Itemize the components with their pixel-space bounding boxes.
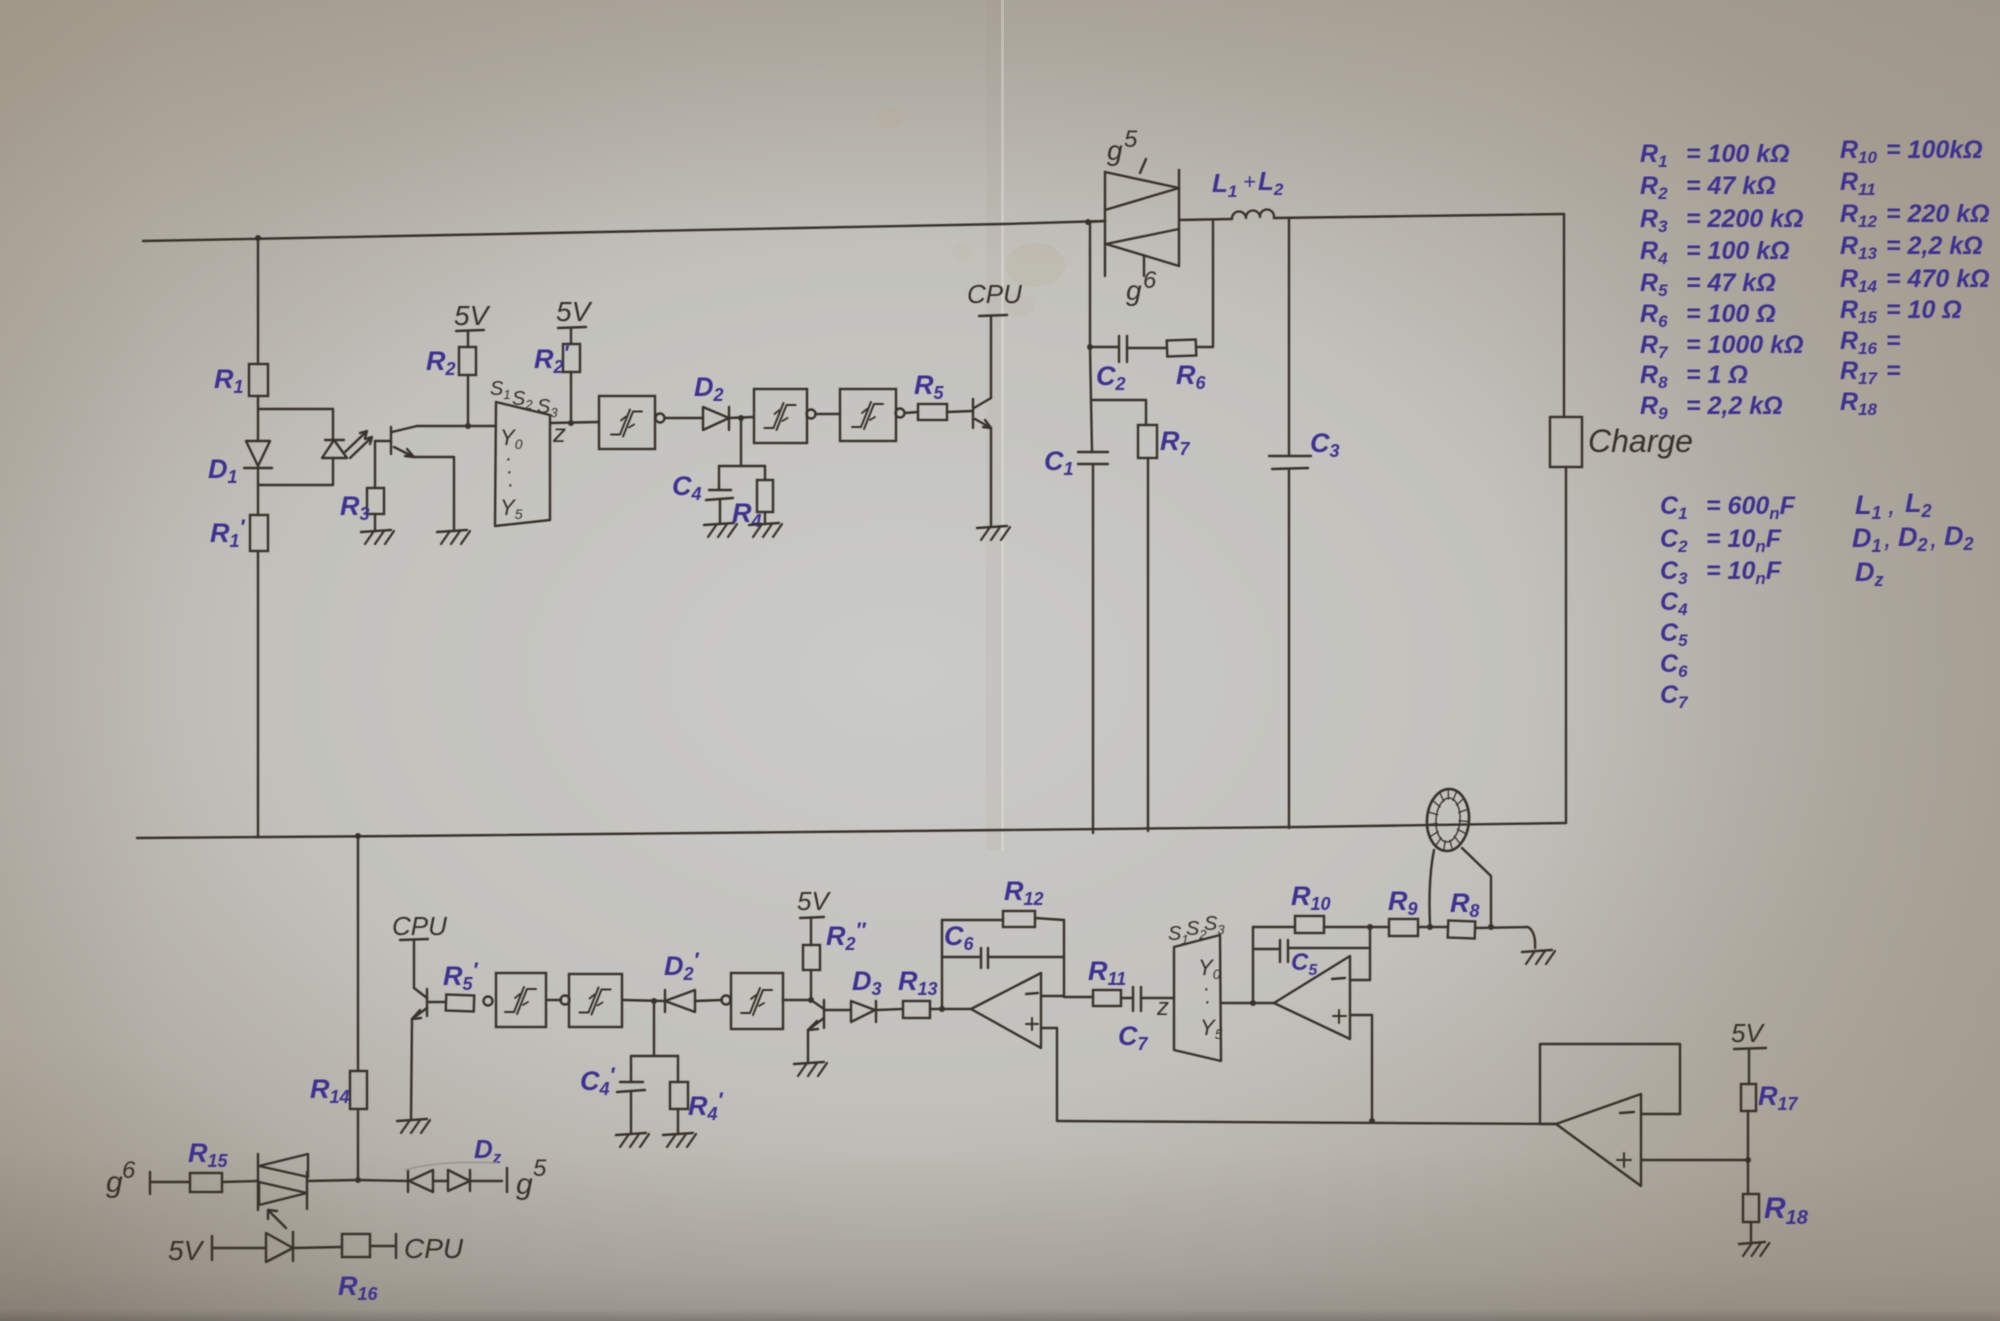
wire A2 plus drop [1371, 1015, 1373, 1121]
triac g5 [1105, 159, 1179, 276]
schmitt U6 [496, 973, 546, 1027]
schmitt U4 [754, 389, 807, 443]
power 5V (R2') [556, 296, 593, 344]
op-amp A2 [1274, 956, 1350, 1039]
svg-text:= 100 Ω: = 100 Ω [1686, 300, 1776, 328]
wire R16 to CPU tick [370, 1245, 396, 1247]
transistor Q2 [973, 398, 991, 428]
resistor R2 [459, 347, 476, 375]
power 5V (R2) [454, 300, 491, 347]
terminal tick g6 [149, 1172, 151, 1194]
node opto lower link [258, 484, 333, 486]
schmitt U5 [840, 389, 896, 441]
bubble U7 in [561, 996, 570, 1005]
svg-text:5V: 5V [797, 886, 831, 916]
svg-text:= 220 kΩ: = 220 kΩ [1886, 200, 1990, 228]
svg-text:6: 6 [122, 1157, 136, 1184]
resistor R4' [670, 1082, 688, 1109]
ground Q2 [977, 526, 1010, 540]
resistor R6 [1167, 339, 1197, 356]
opto light arrows [345, 431, 372, 458]
resistor R18 [1743, 1194, 1759, 1222]
ground C4' [616, 1133, 649, 1147]
wire Q4 emitter [807, 1030, 809, 1063]
svg-text:CPU: CPU [404, 1233, 464, 1264]
power 5V (R2'') [797, 886, 831, 945]
wire long feedback [1057, 1121, 1556, 1124]
svg-text:= 2200 kΩ: = 2200 kΩ [1686, 205, 1804, 233]
capacitor C2 [1119, 336, 1127, 362]
wire Q2 emitter [990, 428, 992, 526]
wire R3 to ground [374, 514, 376, 531]
resistor R13 [903, 1001, 930, 1018]
wire U8 to Q4 [783, 999, 811, 1001]
schmitt U7 [569, 974, 622, 1027]
svg-text:= 100kΩ: = 100kΩ [1886, 136, 1983, 164]
resistor R17 [1741, 1084, 1756, 1111]
resistor R4' wire [677, 1056, 679, 1082]
svg-text:= 10 Ω: = 10 Ω [1886, 296, 1962, 324]
wire R8 to ground hook [1475, 927, 1535, 948]
wire 5V to D4 [212, 1247, 266, 1249]
wire A1 fb up [1063, 920, 1065, 996]
ground R18 [1739, 1242, 1769, 1256]
inductor L1+L2 [1232, 209, 1274, 219]
wire R4 to ground [764, 512, 766, 524]
wire R1 to D1 node [257, 396, 259, 440]
svg-text:= 2,2 kΩ: = 2,2 kΩ [1886, 232, 1983, 260]
node A2 input [1250, 1000, 1256, 1006]
triac g6 [1106, 229, 1179, 276]
svg-text:g: g [516, 1168, 533, 1201]
diode D3 [851, 1001, 876, 1022]
ground Q4 [794, 1062, 827, 1076]
resistor R7 [1138, 425, 1157, 458]
port CPU2 [392, 911, 447, 941]
pencil bracket Dz [405, 1162, 497, 1170]
terminal tick g5 [506, 1168, 508, 1192]
wire right drop to Charge [1563, 214, 1565, 417]
svg-text:= 470 kΩ: = 470 kΩ [1886, 265, 1990, 293]
wire D1 to lower node [257, 468, 259, 515]
svg-text:= 47 kΩ: = 47 kΩ [1686, 172, 1776, 200]
resistor R3 [367, 488, 384, 514]
svg-text:g: g [1107, 135, 1123, 166]
resistor R10 [1295, 916, 1324, 933]
wire R5 to Q2 [947, 411, 973, 412]
resistor R15 [190, 1173, 222, 1192]
wire R17 to node [1747, 1111, 1749, 1160]
wire bottom bus [137, 823, 1566, 838]
svg-text:5V: 5V [454, 300, 491, 331]
svg-text:CPU: CPU [967, 279, 1022, 309]
wire C3 drop [1288, 218, 1290, 456]
svg-text:,: , [1888, 489, 1896, 520]
wire D2 to box2 [729, 417, 754, 418]
wire D2' to U8 [695, 1000, 722, 1001]
resistor R4 wire [764, 466, 766, 480]
svg-text:5: 5 [533, 1155, 547, 1182]
wire U6 to U7 [546, 999, 561, 1001]
load Charge box [1550, 417, 1582, 467]
transistor Q4 [808, 1000, 824, 1030]
svg-text:6: 6 [1143, 267, 1157, 294]
diode Dz b [448, 1170, 470, 1191]
svg-text:= 2,2 kΩ: = 2,2 kΩ [1686, 392, 1783, 420]
resistor R2' [563, 344, 580, 372]
wire A1 plus drop [1056, 1028, 1058, 1121]
wire R18 to ground [1750, 1222, 1752, 1242]
resistor R14 [350, 1071, 367, 1109]
wire Dz to g5 [470, 1180, 502, 1182]
wire C4'/R4' tee [631, 1055, 678, 1057]
wire R7 tap [1092, 400, 1146, 425]
wire C4'/R4' drop [653, 1001, 655, 1056]
svg-text:5V: 5V [1731, 1018, 1765, 1048]
opto U10 light arrow [268, 1210, 286, 1228]
svg-text:,: , [1930, 522, 1938, 553]
node Z/R2' [568, 420, 574, 426]
resistor R9 [1389, 919, 1418, 936]
wire U5 to R5 [905, 412, 918, 413]
wire R9 link [1370, 926, 1389, 928]
ground R8 [1522, 950, 1555, 964]
svg-text:,: , [1884, 522, 1892, 553]
wire C2 to R6 [1127, 347, 1167, 349]
resistor R1 [249, 364, 268, 396]
wire R14 to node [357, 1109, 359, 1180]
capacitor C3 [1269, 456, 1311, 469]
node bus/R14 [355, 833, 361, 839]
svg-text:5: 5 [1124, 126, 1138, 153]
mux U2 [495, 402, 550, 526]
diode D1 [244, 441, 272, 468]
svg-text:=: = [1886, 327, 1901, 355]
node A1 input [939, 1006, 945, 1012]
terminal tick 5V [211, 1236, 213, 1260]
wire A3 minus stub [1641, 1113, 1680, 1115]
resistor R8 [1448, 921, 1476, 939]
capacitor C1 [1078, 452, 1108, 464]
wire U9 to A2 [1221, 1002, 1274, 1004]
toroid T1 [1425, 788, 1471, 853]
op-amp A1 [971, 973, 1041, 1048]
wire R1' to bottom bus [257, 551, 259, 837]
node C4' tap [651, 998, 657, 1004]
wire toroid lead left [1430, 850, 1435, 925]
resistor R2'' [803, 945, 820, 970]
terminal tick CPU [395, 1234, 397, 1258]
node feedback join [1369, 1118, 1375, 1124]
op-amp A3 [1556, 1094, 1641, 1186]
bubble U6 in [484, 997, 493, 1006]
node R2''/Q4 [808, 997, 814, 1003]
svg-text:g: g [106, 1166, 123, 1199]
svg-text:·: · [507, 474, 514, 496]
wire U7 to D2' [622, 1000, 665, 1001]
wire C2 stub [1090, 346, 1118, 348]
wire g6 to R15 [150, 1181, 190, 1183]
diode Dz a [408, 1170, 433, 1192]
wire R2 to node [467, 375, 469, 426]
wire Q2 collector to CPU [990, 316, 992, 398]
wire Dz link [433, 1180, 448, 1182]
wire triac to coil [1179, 219, 1232, 220]
node toroid left lead [1427, 924, 1433, 930]
wire toroid lead right [1462, 848, 1491, 926]
wire opto to node [307, 1180, 358, 1181]
svg-text:CPU: CPU [392, 911, 447, 941]
transistor Q1 (opto) [375, 426, 417, 457]
ground Q3 [397, 1119, 430, 1133]
wire Charge to bottom bus [1565, 467, 1567, 823]
wire A2 minus stub [1350, 979, 1370, 981]
wire R4' to ground [677, 1109, 679, 1134]
node opto upper link [258, 408, 333, 410]
wire C1 to bottom bus [1092, 464, 1094, 833]
opto triac U10 [258, 1154, 308, 1210]
wire CPU2 stem [413, 940, 415, 988]
svg-text:= 100 kΩ: = 100 kΩ [1686, 140, 1790, 168]
wire R13 to A1 [930, 1008, 971, 1010]
wire node to Dz [358, 1180, 408, 1181]
wire U3 to D2 [665, 417, 703, 419]
capacitor C4 [706, 466, 733, 524]
power 5V (R17) [1731, 1018, 1766, 1084]
node toroid right lead [1488, 924, 1494, 930]
wire R2'' to node [810, 970, 812, 1000]
svg-text:z: z [1156, 994, 1169, 1021]
resistor R3 wire [374, 441, 376, 488]
wire C4-R4 drop [740, 418, 742, 466]
wire R15 to opto [222, 1181, 258, 1182]
wire R1 drop [257, 238, 259, 364]
resistor R16 [342, 1234, 370, 1257]
wire A3 fb box [1540, 1044, 1680, 1124]
svg-text:5V: 5V [556, 296, 593, 327]
wire A2 plus stub [1350, 1014, 1372, 1016]
schmitt U3 [599, 396, 655, 449]
diode D2' [665, 990, 695, 1012]
wire C2 branch drop [1089, 222, 1091, 347]
wire C2 node to C1 [1090, 347, 1092, 452]
node R14/Dz [355, 1177, 361, 1183]
svg-text:·: · [1204, 991, 1211, 1013]
wire D4 to R16 [293, 1247, 342, 1248]
wire R7 to bottom bus [1147, 458, 1149, 831]
wire Q3 base stub [427, 1001, 446, 1003]
ground Q1 emitter [437, 530, 470, 544]
resistor R5' [446, 995, 475, 1012]
wire Q3 emitter [411, 1019, 412, 1120]
wire C7 to mux2 [1141, 997, 1174, 999]
wire bus to triac [1088, 221, 1105, 222]
wire R14 drop [357, 836, 359, 1071]
wire node to R18 [1747, 1160, 1749, 1194]
svg-text:= 10nF: = 10nF [1706, 525, 1782, 556]
wire C4-R4 tee [719, 465, 765, 467]
svg-text:= 1 Ω: = 1 Ω [1686, 361, 1748, 389]
svg-text:+: + [1243, 169, 1256, 194]
wire A2 fb right [1369, 927, 1371, 980]
svg-text:= 10nF: = 10nF [1706, 557, 1782, 588]
bubble U5 out [896, 409, 905, 418]
svg-text:= 47 kΩ: = 47 kΩ [1686, 269, 1776, 297]
diode D2 [703, 407, 729, 430]
wire Z to box1 [550, 422, 599, 423]
resistor R12 [1003, 911, 1035, 927]
ground Q1 base divider [361, 530, 394, 544]
diode D4 (LED) [266, 1232, 293, 1262]
wire coil to right corner [1274, 214, 1564, 218]
bubble U8 in [722, 996, 731, 1005]
svg-text:= 1000 kΩ: = 1000 kΩ [1686, 331, 1804, 359]
resistor R1' [250, 515, 268, 551]
wire A2 fb top [1253, 926, 1295, 928]
wire R2' to Z node [570, 372, 572, 423]
capacitor C4' [617, 1056, 645, 1134]
node A3 plus [1745, 1157, 1751, 1163]
capacitor C6 [942, 948, 1064, 968]
schmitt U8 [731, 973, 783, 1029]
wire C3 to bottom bus [1288, 469, 1290, 828]
bubble U4 out [807, 410, 816, 419]
wire A1 plus stub [1041, 1027, 1057, 1029]
svg-text:g: g [1126, 275, 1142, 306]
ground R4' [663, 1133, 696, 1147]
wire D3 to R13 [876, 1009, 903, 1010]
svg-text:Charge: Charge [1588, 423, 1693, 459]
wire Q1 collector to mux [417, 425, 496, 427]
node C2 branch [1087, 344, 1093, 350]
wire U4 to U5 [816, 413, 840, 415]
svg-text:5V: 5V [168, 1235, 205, 1266]
wire top bus left [143, 221, 1105, 241]
capacitor C7 [1133, 987, 1141, 1011]
node R2/mux input [465, 423, 471, 429]
wire R6 up to bus [1196, 220, 1213, 347]
svg-text:= 100 kΩ: = 100 kΩ [1686, 237, 1790, 265]
wire A1 out to R11 [1064, 996, 1093, 998]
wire R11 to C7 [1121, 997, 1133, 999]
wire R9 to R8 [1418, 926, 1448, 928]
resistor R4 [757, 480, 773, 512]
optocoupler LED U1a [322, 409, 347, 485]
svg-text:= 600nF: = 600nF [1706, 492, 1796, 523]
resistor R5 [918, 404, 947, 420]
wire A1 fb top [942, 919, 1003, 921]
ground R4 [749, 523, 782, 537]
wire A1 minus stub [1041, 995, 1064, 997]
wire Q4 to D3 [824, 1009, 851, 1011]
svg-text:=: = [1886, 357, 1901, 385]
mux U9 [1174, 935, 1221, 1061]
port CPU (top) [967, 279, 1022, 316]
capacitor C5 [1253, 940, 1368, 962]
wire A1 fb left [941, 920, 943, 1009]
wire A2 fb left [1252, 927, 1254, 1003]
transistor Q3 [412, 988, 427, 1019]
node junction top bus / R1 [255, 235, 261, 241]
resistor R11 [1093, 990, 1121, 1006]
node D2/C4 [738, 415, 744, 421]
node bus/triac left [1085, 219, 1091, 225]
ground C4 [704, 523, 737, 537]
wire Q1 emitter run [414, 457, 454, 531]
bubble U3 out [656, 414, 665, 423]
wire A3 plus out [1641, 1159, 1748, 1161]
